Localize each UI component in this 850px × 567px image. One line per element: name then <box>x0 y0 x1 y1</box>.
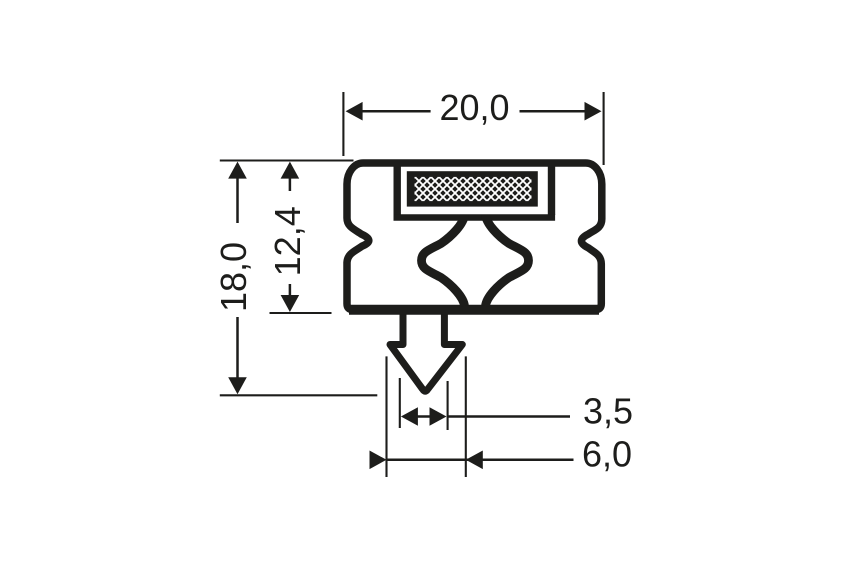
top extension line for 18,0 / 12,4 <box>220 159 354 161</box>
magnet pocket right wall <box>548 166 555 215</box>
dim 3,5: dimension line <box>418 415 571 418</box>
svg-text:18,0: 18,0 <box>213 242 254 312</box>
magnet pocket left wall <box>394 166 401 215</box>
svg-text:12,4: 12,4 <box>267 206 308 276</box>
butterfly inner curve left <box>422 215 465 306</box>
dim 12,4: dimension line segments <box>289 178 292 296</box>
bottom bar (thicker) <box>349 305 599 315</box>
dim 20,0: left extension line <box>342 92 344 156</box>
dart foot (barbed insertion arrow at bottom of gasket) <box>390 314 462 392</box>
svg-text:6,0: 6,0 <box>582 434 632 475</box>
dim 3,5: left arrowhead (pointing left) <box>401 407 418 426</box>
magnet crosshatch area <box>415 177 532 201</box>
dim 12,4: bottom tick line <box>270 312 332 314</box>
dim 6,0: left extension line <box>385 356 387 477</box>
dim 18,0: bottom extension line <box>220 394 377 396</box>
dim 20,0: left arrowhead <box>346 102 363 121</box>
dim 12,4: top arrowhead <box>281 162 300 179</box>
svg-text:3,5: 3,5 <box>583 391 633 432</box>
dim 6,0: left arrowhead (pointing right, outside) <box>370 451 387 470</box>
dim 20,0: right extension line <box>603 92 605 165</box>
dim 18,0: top arrowhead <box>228 162 247 179</box>
dim 6,0: right arrowhead (pointing left, outside) <box>466 451 483 470</box>
dim 12,4: bottom arrowhead <box>281 295 300 312</box>
dim 6,0: dimension line <box>387 459 574 462</box>
magnet pocket bottom line <box>394 214 556 220</box>
dim 6,0: right extension line <box>465 356 467 477</box>
dim 3,5: left extension line <box>399 378 401 428</box>
dim 20,0: right arrowhead <box>585 102 602 121</box>
dim 3,5: right arrowhead (pointing right) <box>430 407 447 426</box>
dim 20,0: dimension line segments <box>362 110 585 113</box>
butterfly inner curve right <box>486 215 529 306</box>
outer gasket profile outline <box>347 163 602 310</box>
svg-text:20,0: 20,0 <box>439 87 509 128</box>
dim 18,0: dimension line segments <box>236 178 239 378</box>
dim 3,5: right extension line <box>447 381 449 430</box>
magnet (black body) <box>407 171 538 206</box>
dim 18,0: bottom arrowhead <box>228 377 247 394</box>
